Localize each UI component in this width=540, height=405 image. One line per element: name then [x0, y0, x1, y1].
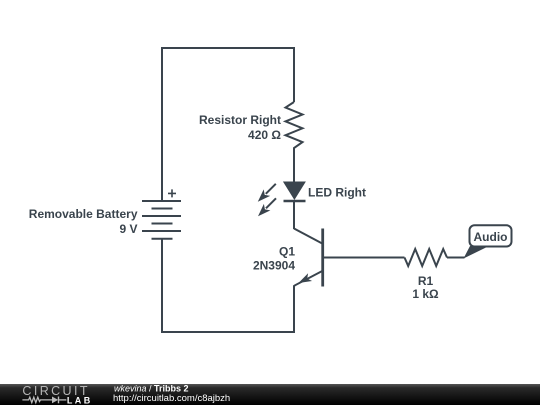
battery plus sign: [168, 189, 176, 197]
transistor emitter lead: [294, 271, 323, 288]
CircuitLab logo resistor zigzag: [22, 397, 52, 402]
node flag Audio : balloon: [470, 225, 512, 246]
CircuitLab logo CIRCUIT: [22, 384, 90, 398]
label Resistor Right: [199, 113, 281, 127]
svg-text:Q1: Q1: [279, 244, 295, 258]
LED light arrow lower: [258, 198, 276, 216]
svg-text:Removable Battery: Removable Battery: [29, 207, 138, 221]
wire bottom from battery minus to emitter branch: [162, 239, 294, 332]
node flag Audio : text: [474, 230, 508, 244]
label R1: [418, 274, 434, 288]
label 9 V: [119, 222, 137, 236]
svg-text:LED Right: LED Right: [308, 186, 366, 200]
svg-text:Audio: Audio: [474, 230, 508, 244]
svg-text:http://circuitlab.com/c8ajbzh: http://circuitlab.com/c8ajbzh: [113, 393, 230, 404]
wire base to R1: [323, 257, 405, 259]
svg-text:R1: R1: [418, 274, 434, 288]
svg-text:2N3904: 2N3904: [253, 258, 295, 272]
footer bar: [0, 384, 540, 405]
svg-text:9 V: 9 V: [119, 222, 137, 236]
svg-text:Resistor Right: Resistor Right: [199, 113, 281, 127]
wire top from battery plus to resistor branch: [162, 48, 294, 201]
label 420 ohm: [248, 128, 281, 142]
svg-text:1 kΩ: 1 kΩ: [412, 287, 439, 301]
svg-text:420 Ω: 420 Ω: [248, 128, 281, 142]
LED light arrow upper: [258, 184, 276, 202]
CircuitLab logo diode: [52, 397, 66, 404]
wire R1 to Audio flag: [447, 257, 465, 259]
label 1 kohm: [412, 287, 439, 301]
battery V1 Removable Battery 9 V: [142, 201, 181, 239]
resistor R1 1 kohm: [405, 249, 448, 266]
transistor Q1 2N3904 : base bar: [321, 229, 324, 287]
wire LED cathode to transistor collector: [293, 201, 295, 229]
LED D1 LED Right : anode triangle: [284, 182, 305, 199]
label Removable Battery: [29, 207, 138, 221]
LED cathode bar: [284, 200, 306, 203]
label Q1: [279, 244, 295, 258]
footer credit wkevina / Tribbs 2: [114, 384, 189, 394]
svg-text:LAB: LAB: [67, 395, 93, 405]
footer url: [113, 393, 230, 404]
transistor emitter arrowhead: [299, 273, 313, 283]
node flag Audio : pointer: [464, 246, 489, 259]
label LED Right: [308, 186, 366, 200]
transistor collector lead: [294, 229, 323, 244]
label 2N3904: [253, 258, 295, 272]
CircuitLab logo LAB: [67, 395, 93, 405]
resistor Resistor Right 420 ohm: [286, 102, 303, 182]
